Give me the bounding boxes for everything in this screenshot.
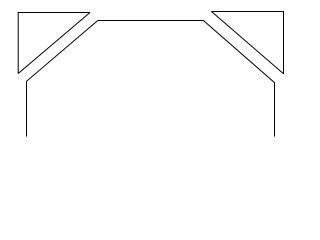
open-bottom chamfered box outline [27, 21, 275, 137]
left triangle flap [18, 12, 90, 74]
right triangle hypotenuse [212, 12, 284, 74]
right triangle flap [211, 11, 284, 74]
left triangle hypotenuse [18, 13, 90, 74]
left triangle top edge [18, 12, 90, 14]
right triangle right vertical edge [283, 11, 285, 74]
right triangle top edge [211, 11, 284, 13]
left triangle left vertical edge [17, 12, 19, 74]
